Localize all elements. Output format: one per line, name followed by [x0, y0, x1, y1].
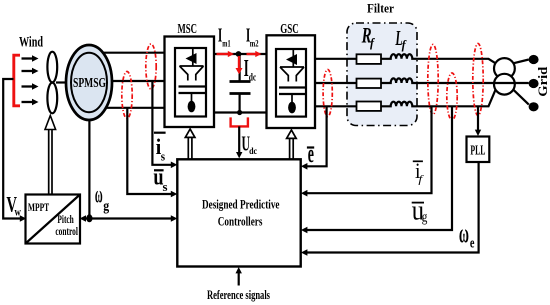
junction dot DC- — [237, 110, 242, 115]
controller box — [177, 159, 300, 266]
MSC gate open arrowhead — [185, 129, 195, 137]
grid terminal dot c — [529, 102, 539, 111]
wire is feedback — [152, 81, 171, 165]
grid terminal dot b — [529, 79, 539, 88]
red arrow Idc — [238, 56, 240, 69]
svg-text:Designed Predictive: Designed Predictive — [202, 196, 280, 211]
converter GSC box — [267, 35, 316, 128]
svg-text:PLL: PLL — [470, 143, 485, 158]
wire DC link top — [214, 53, 267, 55]
wire stator phase a — [98, 52, 165, 54]
resistor Rf phase a — [357, 54, 382, 64]
sensor ellipse GSC output e — [323, 70, 332, 117]
svg-text:s: s — [163, 179, 168, 194]
svg-text:SPMSG: SPMSG — [73, 76, 106, 91]
resistor Rf phase c — [357, 102, 382, 111]
sensor ellipse filter current if — [428, 45, 438, 115]
MSC gate double line — [187, 137, 189, 159]
wire omega_g into MPPT — [86, 217, 89, 219]
label is bar — [154, 132, 166, 134]
hub wire blades to generator — [56, 81, 68, 83]
red wind bracket — [14, 55, 20, 106]
turbine blade upper — [47, 52, 57, 83]
GSC inner box — [276, 49, 306, 117]
wire Udc arrow into controller — [238, 126, 240, 152]
MPPT box diagonal — [26, 195, 81, 244]
transformer circle lower — [494, 74, 515, 95]
svg-text:m2: m2 — [250, 38, 259, 48]
wire if feedback — [306, 106, 431, 193]
capacitor C plates — [230, 80, 251, 83]
red current arrow Im1 — [217, 53, 229, 55]
wire stator phase b — [105, 80, 165, 82]
resistor Rf phase b — [357, 79, 382, 88]
svg-text:dc: dc — [249, 147, 257, 157]
wire bracket to Vw to MPPT — [3, 79, 20, 219]
pitch actuator double line — [48, 130, 50, 195]
svg-text:control: control — [55, 224, 78, 238]
PLL box — [467, 137, 490, 163]
wind arrow 4 — [22, 101, 33, 103]
svg-text:Wind: Wind — [19, 35, 43, 51]
junction dot DC+ — [236, 51, 242, 57]
grid terminal dot a — [529, 55, 539, 64]
MSC IGBT symbol — [179, 49, 206, 112]
filter dash-dot box — [347, 23, 417, 126]
wire stator phase c — [100, 107, 165, 109]
junction dot omega_g — [86, 214, 92, 222]
converter MSC box — [165, 37, 215, 128]
turbine blade lower — [47, 83, 57, 114]
wire us feedback — [127, 108, 171, 194]
GSC IGBT symbol — [279, 50, 306, 113]
capacitor C stem bottom — [239, 94, 241, 113]
wire e feedback — [306, 106, 326, 166]
svg-text:dc: dc — [249, 73, 257, 84]
wire DC link bottom — [214, 111, 267, 113]
wire omega_e feedback — [306, 162, 478, 253]
svg-text:Reference signals: Reference signals — [207, 287, 270, 302]
pitch open arrowhead — [45, 116, 56, 130]
svg-text:m1: m1 — [222, 38, 231, 48]
svg-text:Filter: Filter — [367, 1, 394, 15]
MPPT pitch control box — [26, 195, 81, 244]
svg-text:ω: ω — [459, 218, 469, 248]
svg-text:MPPT: MPPT — [28, 200, 49, 214]
wire omega_g from generator — [88, 120, 90, 219]
MSC inner box — [175, 48, 206, 117]
voltage sensor ellipse stator us — [122, 72, 132, 119]
wire grid phase c — [315, 90, 496, 107]
red current arrow Im2 — [247, 53, 256, 55]
capacitor C stem top — [239, 54, 241, 81]
red Udc sensor clamp — [231, 117, 248, 126]
svg-text:MSC: MSC — [178, 21, 198, 36]
generator SPMSG outer — [66, 45, 112, 120]
sensor ellipse PLL input — [473, 44, 483, 116]
wire grid phase b — [315, 78, 529, 83]
transformer circle upper — [494, 58, 515, 79]
label us bar — [154, 169, 164, 171]
wind arrow 3 — [22, 85, 33, 87]
wire grid phase a — [315, 54, 496, 63]
GSC gate double line — [289, 138, 291, 159]
wire reference signals arrow — [238, 273, 240, 286]
GSC gate open arrowhead — [287, 130, 297, 138]
wind arrow 1 — [22, 57, 33, 59]
svg-text:Grid: Grid — [535, 66, 550, 97]
current sensor ellipse stator is — [146, 44, 156, 89]
label e bar — [307, 146, 314, 148]
wire ug feedback — [306, 106, 452, 230]
wire into PLL — [477, 106, 479, 130]
wind arrow 2 — [22, 70, 33, 72]
svg-text:w: w — [15, 205, 22, 219]
svg-text:s: s — [161, 149, 165, 164]
svg-text:GSC: GSC — [280, 21, 299, 36]
svg-text:g: g — [103, 198, 109, 214]
svg-text:e: e — [308, 139, 314, 168]
generator SPMSG inner — [71, 53, 107, 112]
label ug bar — [412, 202, 424, 204]
svg-text:Controllers: Controllers — [218, 213, 263, 228]
svg-text:g: g — [422, 210, 428, 226]
arrowhead Vw into MPPT — [20, 215, 26, 222]
svg-text:ω: ω — [95, 182, 103, 208]
sensor ellipse grid voltage ug — [447, 73, 457, 120]
svg-text:e: e — [470, 236, 475, 252]
label if bar — [413, 160, 423, 162]
